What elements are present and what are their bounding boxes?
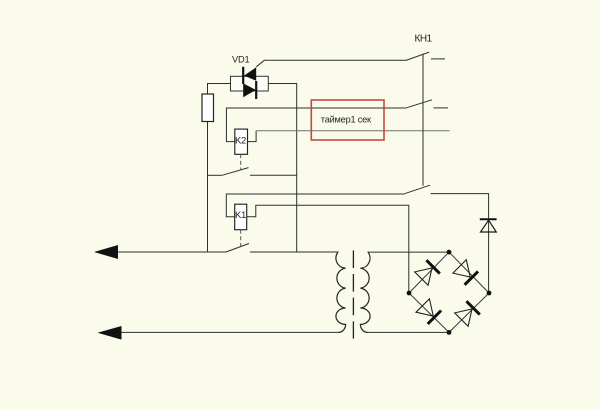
transformer T1 primary winding bbox=[336, 252, 346, 332]
bridge edge top-left bbox=[409, 252, 449, 293]
wire K2 contact blade bbox=[222, 168, 249, 176]
bridge diode D3 (left to bottom) bbox=[416, 299, 441, 324]
switch KH1 pole2 blade bbox=[407, 100, 432, 108]
K1 actuation dashed link bbox=[240, 230, 242, 247]
junction dot bridge left bbox=[407, 291, 412, 296]
wire K2 coil right lead bbox=[248, 131, 257, 142]
wire K2 contact right bbox=[250, 174, 297, 176]
wire K2 contact left bbox=[208, 174, 223, 176]
switch KH1 pole1 blade bbox=[406, 52, 430, 60]
resistor R1 bbox=[202, 94, 214, 122]
wire bottom line with K1 contact left bbox=[110, 251, 226, 253]
wire bottom line right to transformer primary bbox=[250, 251, 339, 253]
wire resistor top to VD1 left lead bbox=[208, 84, 231, 95]
diode VD2 above bridge right vertex bbox=[480, 219, 497, 232]
bridge edge top-right bbox=[449, 252, 489, 293]
svg-text:VD1: VD1 bbox=[232, 54, 250, 64]
junction dot bridge right bbox=[487, 291, 492, 296]
wire KH1 pole3 to diode VD2 bbox=[431, 194, 489, 293]
bridge diode D4 (bottom to right) bbox=[455, 301, 480, 326]
switch K1 contact blade bbox=[226, 244, 249, 253]
junction dot bridge top bbox=[447, 250, 452, 255]
relay coil K2 bbox=[235, 129, 248, 154]
wire resistor bottom vertical bbox=[207, 122, 209, 253]
VD1 body box bbox=[231, 76, 269, 91]
KH1 pole2 right stub bbox=[434, 107, 449, 109]
junction dot bridge bottom bbox=[447, 330, 452, 335]
wire transformer secondary top to bridge top vertex bbox=[368, 251, 450, 253]
wire K1 coil left lead up and right to KH1 pole3 bbox=[226, 194, 404, 217]
wire K2 coil left lead up to timer wire bbox=[226, 108, 406, 142]
bridge edge bottom-left bbox=[409, 293, 449, 332]
KH1 link bar bbox=[422, 54, 424, 186]
timer frame (red) bbox=[311, 100, 384, 140]
svg-text:таймер1 сек: таймер1 сек bbox=[321, 115, 372, 125]
wire VD1 right lead bbox=[268, 84, 296, 253]
transformer T1 secondary winding bbox=[360, 252, 370, 332]
relay coil K1 bbox=[235, 204, 247, 230]
wire VD1 to KH1 pole1 bbox=[256, 60, 405, 67]
wire transformer secondary bottom to bridge bottom vertex bbox=[368, 331, 450, 333]
wire lower arrow line to transformer primary bottom bbox=[115, 331, 339, 333]
svg-text:КН1: КН1 bbox=[415, 34, 433, 45]
bridge diode D1 (left to top) bbox=[415, 260, 440, 285]
svg-text:K1: K1 bbox=[235, 210, 246, 221]
bridge diode D2 (top to right) bbox=[453, 260, 478, 285]
arrow output 2 bbox=[98, 326, 122, 340]
KH1 pole1 right stub bbox=[431, 58, 445, 60]
bridge edge bottom-right bbox=[449, 293, 489, 332]
wire K2 coil to timer (gray) bbox=[256, 130, 449, 132]
K2 actuation dashed link bbox=[240, 154, 242, 170]
VD1 triac symbol bbox=[243, 67, 256, 99]
svg-text:K2: K2 bbox=[235, 135, 246, 146]
transformer core dashed line bbox=[352, 250, 354, 338]
switch KH1 pole3 blade bbox=[405, 185, 430, 194]
wire K1 coil right lead to bridge left vertex bbox=[247, 205, 409, 292]
arrow output 1 bbox=[94, 245, 118, 259]
